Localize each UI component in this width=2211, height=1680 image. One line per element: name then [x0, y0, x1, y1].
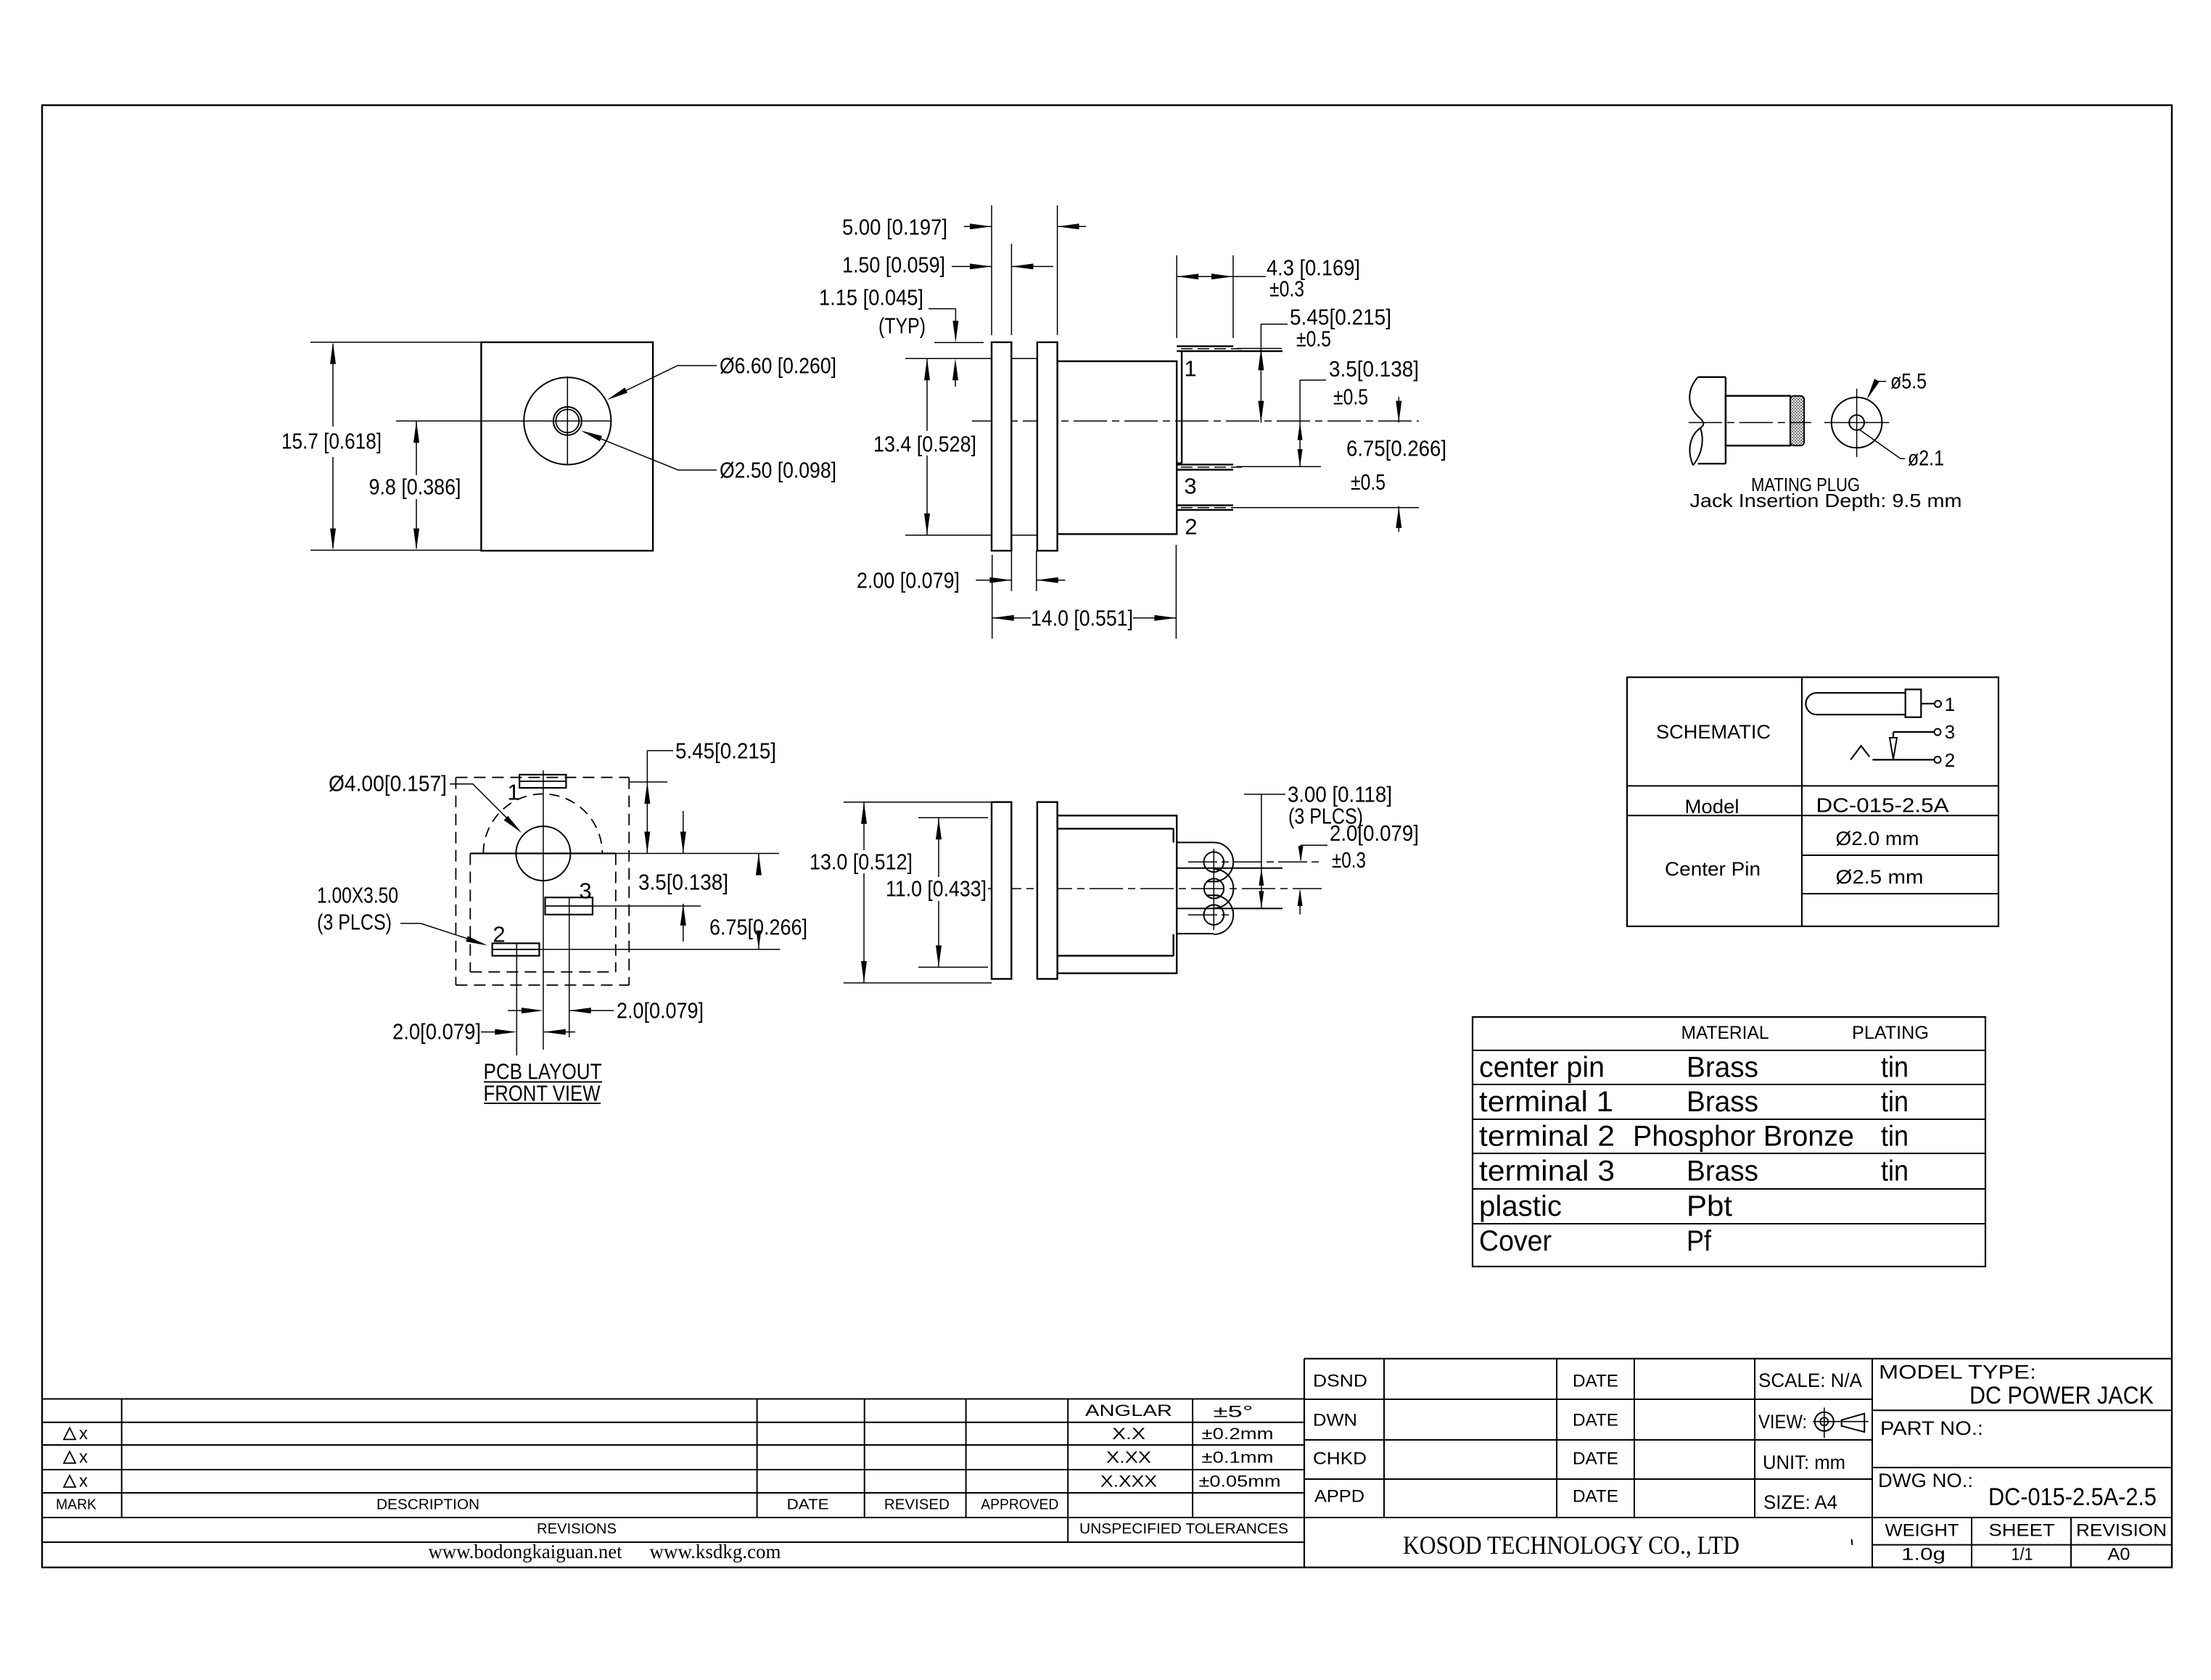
svg-text:terminal 2: terminal 2: [1479, 1121, 1615, 1153]
svg-text:±0.2mm: ±0.2mm: [1202, 1425, 1274, 1443]
svg-text:APPROVED: APPROVED: [981, 1497, 1058, 1513]
svg-text:MARK: MARK: [56, 1497, 97, 1513]
svg-text:DATE: DATE: [1573, 1411, 1618, 1430]
svg-text:Phosphor Bronze: Phosphor Bronze: [1633, 1121, 1854, 1153]
svg-text:REVISION: REVISION: [2076, 1521, 2167, 1541]
svg-text:3.5[0.138]: 3.5[0.138]: [1329, 356, 1419, 382]
svg-text:3: 3: [1184, 474, 1196, 499]
svg-text:DWG NO.:: DWG NO.:: [1878, 1470, 1973, 1491]
svg-text:1: 1: [1945, 693, 1955, 715]
svg-text:PLATING: PLATING: [1852, 1023, 1929, 1043]
svg-text:ø5.5: ø5.5: [1890, 370, 1927, 394]
svg-text:center pin: center pin: [1479, 1052, 1605, 1084]
svg-text:2: 2: [1945, 749, 1955, 771]
svg-text:Brass: Brass: [1687, 1052, 1758, 1084]
svg-text:A0: A0: [2108, 1545, 2130, 1565]
svg-text:SCHEMATIC: SCHEMATIC: [1656, 721, 1771, 743]
svg-text:terminal 3: terminal 3: [1479, 1156, 1615, 1187]
svg-text:WEIGHT: WEIGHT: [1885, 1521, 1959, 1541]
svg-text:6.75[0.266]: 6.75[0.266]: [709, 915, 807, 940]
svg-text:1.15 [0.045]: 1.15 [0.045]: [819, 285, 923, 310]
svg-text:tin: tin: [1881, 1156, 1909, 1187]
svg-text:1/1: 1/1: [2012, 1545, 2033, 1565]
svg-text:2.0[0.079]: 2.0[0.079]: [392, 1019, 481, 1045]
svg-text:DC POWER JACK: DC POWER JACK: [1969, 1382, 2154, 1409]
svg-text:UNIT: mm: UNIT: mm: [1763, 1452, 1845, 1473]
svg-text:SHEET: SHEET: [1989, 1521, 2055, 1541]
svg-text:15.7 [0.618]: 15.7 [0.618]: [281, 429, 382, 454]
svg-text:Pf: Pf: [1687, 1225, 1712, 1257]
svg-text:UNSPECIFIED TOLERANCES: UNSPECIFIED TOLERANCES: [1079, 1521, 1288, 1537]
svg-text:DATE: DATE: [1573, 1372, 1618, 1391]
svg-text:tin: tin: [1881, 1086, 1909, 1118]
svg-text:SCALE: N/A: SCALE: N/A: [1758, 1370, 1862, 1391]
svg-text:5.00 [0.197]: 5.00 [0.197]: [842, 215, 947, 240]
svg-text:±0.5: ±0.5: [1296, 326, 1331, 352]
svg-text:Model: Model: [1685, 796, 1739, 818]
svg-text:6.75[0.266]: 6.75[0.266]: [1346, 436, 1446, 461]
svg-text:±0.1mm: ±0.1mm: [1202, 1449, 1274, 1467]
svg-text:14.0 [0.551]: 14.0 [0.551]: [1031, 606, 1133, 631]
svg-text:±0.5: ±0.5: [1351, 469, 1386, 495]
svg-text:2.00 [0.079]: 2.00 [0.079]: [857, 568, 960, 593]
svg-text:PART NO.:: PART NO.:: [1880, 1417, 1983, 1439]
svg-text:(TYP): (TYP): [878, 313, 926, 339]
svg-text:DATE: DATE: [1573, 1487, 1618, 1507]
svg-text:1.0g: 1.0g: [1901, 1545, 1946, 1565]
svg-text:±0.3: ±0.3: [1332, 847, 1366, 873]
svg-text:tin: tin: [1881, 1052, 1909, 1084]
svg-text:Ø2.0 mm: Ø2.0 mm: [1836, 828, 1919, 849]
svg-text:DATE: DATE: [787, 1497, 829, 1513]
svg-text:VIEW:: VIEW:: [1758, 1411, 1807, 1433]
svg-text:Cover: Cover: [1479, 1225, 1552, 1257]
svg-text:9.8 [0.386]: 9.8 [0.386]: [369, 474, 461, 500]
svg-text:APPD: APPD: [1314, 1487, 1364, 1507]
svg-text:CHKD: CHKD: [1313, 1449, 1367, 1469]
svg-text:www.bodongkaiguan.net: www.bodongkaiguan.net: [429, 1541, 622, 1562]
svg-text:±5°: ±5°: [1214, 1403, 1253, 1421]
svg-text:1.50 [0.059]: 1.50 [0.059]: [842, 252, 945, 278]
svg-text:Ø6.60 [0.260]: Ø6.60 [0.260]: [720, 353, 836, 379]
svg-text:MATERIAL: MATERIAL: [1681, 1023, 1769, 1043]
svg-text:DATE: DATE: [1573, 1449, 1618, 1469]
svg-text:DESCRIPTION: DESCRIPTION: [376, 1497, 479, 1513]
svg-text:Brass: Brass: [1687, 1086, 1758, 1118]
svg-text:DC-015-2.5A-2.5: DC-015-2.5A-2.5: [1988, 1483, 2157, 1511]
svg-text:±0.3: ±0.3: [1269, 276, 1304, 302]
svg-text:DC-015-2.5A: DC-015-2.5A: [1816, 794, 1949, 817]
svg-text:SIZE: A4: SIZE: A4: [1763, 1491, 1837, 1513]
svg-text:Ø2.5 mm: Ø2.5 mm: [1836, 866, 1924, 888]
svg-text:MODEL TYPE:: MODEL TYPE:: [1879, 1362, 2036, 1383]
svg-text:tin: tin: [1881, 1121, 1909, 1153]
svg-text:2.0[0.079]: 2.0[0.079]: [617, 998, 704, 1024]
svg-text:1.00X3.50: 1.00X3.50: [317, 883, 398, 908]
svg-text:Ø2.50 [0.098]: Ø2.50 [0.098]: [720, 458, 836, 483]
svg-text:REVISIONS: REVISIONS: [537, 1521, 617, 1537]
svg-text:x: x: [79, 1472, 88, 1491]
svg-text:X.X: X.X: [1112, 1425, 1145, 1443]
svg-text:Ø4.00[0.157]: Ø4.00[0.157]: [329, 771, 447, 796]
svg-text:1: 1: [1184, 356, 1196, 382]
svg-text:KOSOD TECHNOLOGY CO., LTD: KOSOD TECHNOLOGY CO., LTD: [1403, 1531, 1739, 1560]
svg-text:x: x: [79, 1448, 88, 1467]
svg-text:ANGLAR: ANGLAR: [1085, 1401, 1172, 1420]
svg-text:5.45[0.215]: 5.45[0.215]: [675, 738, 776, 764]
svg-text:13.0 [0.512]: 13.0 [0.512]: [810, 849, 913, 875]
svg-text:terminal 1: terminal 1: [1479, 1086, 1613, 1118]
svg-text:2.0[0.079]: 2.0[0.079]: [1330, 820, 1419, 846]
svg-text:Jack Insertion Depth: 9.5 mm: Jack Insertion Depth: 9.5 mm: [1690, 490, 1962, 511]
svg-text:DSND: DSND: [1313, 1372, 1367, 1391]
svg-text:DWN: DWN: [1313, 1411, 1357, 1430]
svg-text:3.5[0.138]: 3.5[0.138]: [638, 870, 728, 895]
svg-text:Pbt: Pbt: [1687, 1190, 1732, 1222]
svg-text:FRONT VIEW: FRONT VIEW: [484, 1081, 601, 1106]
svg-text:plastic: plastic: [1479, 1190, 1562, 1222]
svg-text:ø2.1: ø2.1: [1908, 447, 1944, 471]
svg-text:11.0 [0.433]: 11.0 [0.433]: [886, 876, 987, 902]
svg-text:Center Pin: Center Pin: [1665, 858, 1761, 880]
svg-text:X.XX: X.XX: [1106, 1449, 1151, 1467]
svg-text:x: x: [79, 1424, 88, 1444]
svg-text:(3 PLCS): (3 PLCS): [317, 910, 392, 935]
svg-text:2: 2: [1185, 514, 1197, 540]
svg-text:www.ksdkg.com: www.ksdkg.com: [650, 1541, 781, 1562]
svg-text:X.XXX: X.XXX: [1100, 1473, 1157, 1491]
svg-text:1: 1: [507, 780, 519, 805]
svg-text:3: 3: [1945, 721, 1955, 743]
svg-text:±0.05mm: ±0.05mm: [1199, 1473, 1281, 1491]
svg-text:Brass: Brass: [1687, 1156, 1758, 1187]
svg-text:±0.5: ±0.5: [1333, 384, 1368, 410]
svg-text:REVISED: REVISED: [884, 1497, 950, 1513]
svg-text:3: 3: [579, 878, 591, 904]
svg-text:2: 2: [493, 922, 505, 947]
svg-text:13.4 [0.528]: 13.4 [0.528]: [873, 432, 976, 457]
